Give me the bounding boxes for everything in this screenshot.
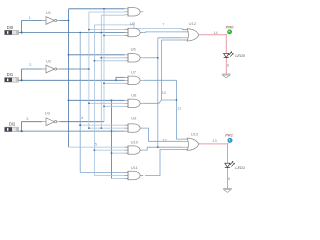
- svg-text:U11: U11: [131, 165, 139, 170]
- svg-text:U5: U5: [130, 21, 136, 26]
- svg-text:11: 11: [177, 106, 181, 111]
- svg-text:U8: U8: [131, 92, 137, 97]
- svg-text:6: 6: [227, 63, 229, 68]
- svg-text:U1: U1: [46, 10, 52, 15]
- svg-text:U2: U2: [46, 59, 52, 64]
- svg-text:12: 12: [162, 138, 166, 143]
- svg-text:LED1: LED1: [235, 165, 245, 170]
- svg-text:2: 2: [29, 62, 31, 67]
- svg-text:7: 7: [162, 22, 164, 27]
- svg-text:13: 13: [212, 138, 216, 143]
- svg-text:U9: U9: [131, 115, 137, 120]
- svg-text:U13: U13: [191, 131, 199, 136]
- svg-text:LED0: LED0: [235, 53, 246, 58]
- svg-text:DI2: DI2: [9, 122, 16, 127]
- svg-text:5: 5: [95, 141, 97, 146]
- svg-text:DI0: DI0: [7, 25, 14, 30]
- svg-text:8: 8: [228, 176, 230, 181]
- svg-text:U10: U10: [131, 139, 139, 144]
- svg-text:U6: U6: [131, 46, 137, 51]
- svg-text:3: 3: [26, 116, 28, 121]
- svg-text:DI1: DI1: [7, 72, 14, 77]
- svg-text:U3: U3: [45, 111, 51, 116]
- svg-text:PR0: PR0: [226, 24, 235, 29]
- svg-text:PR1: PR1: [225, 133, 233, 138]
- svg-text:U12: U12: [189, 21, 197, 26]
- svg-text:U7: U7: [131, 70, 137, 75]
- svg-text:1: 1: [29, 15, 31, 20]
